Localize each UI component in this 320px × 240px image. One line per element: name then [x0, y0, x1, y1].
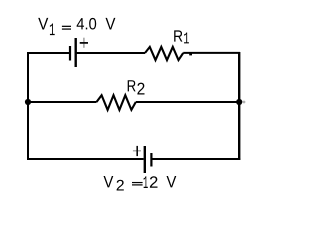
node right small gray mark [243, 101, 246, 104]
label V1 value [38, 18, 115, 35]
battery V1 [70, 38, 88, 67]
battery V2 negative plate [150, 153, 152, 167]
battery V2 plus polarity mark [133, 150, 141, 151]
wire left vertical [27, 52, 29, 160]
label R2 [128, 80, 145, 94]
battery V1 plus polarity mark [83, 38, 84, 48]
node right junction dot [236, 99, 242, 105]
wire middle right segment [136, 101, 239, 103]
battery V1 positive plate [74, 38, 76, 67]
wire middle left segment [28, 101, 97, 103]
battery V1 negative plate [69, 46, 71, 61]
wire bottom right segment [152, 158, 240, 160]
wire bottom left segment [27, 158, 144, 160]
node left junction dot [25, 99, 31, 105]
tick on wire after R1 [189, 53, 192, 55]
resistor R2 [97, 95, 136, 110]
resistor R1 [145, 47, 183, 60]
wire top left segment [27, 52, 70, 54]
label R1 [174, 30, 189, 43]
wire right vertical [238, 52, 240, 160]
label V2 value [104, 176, 177, 191]
battery V2 [133, 146, 152, 173]
battery V2 positive plate [144, 146, 146, 173]
wire top middle segment [77, 52, 146, 54]
wire top right segment [183, 52, 240, 54]
